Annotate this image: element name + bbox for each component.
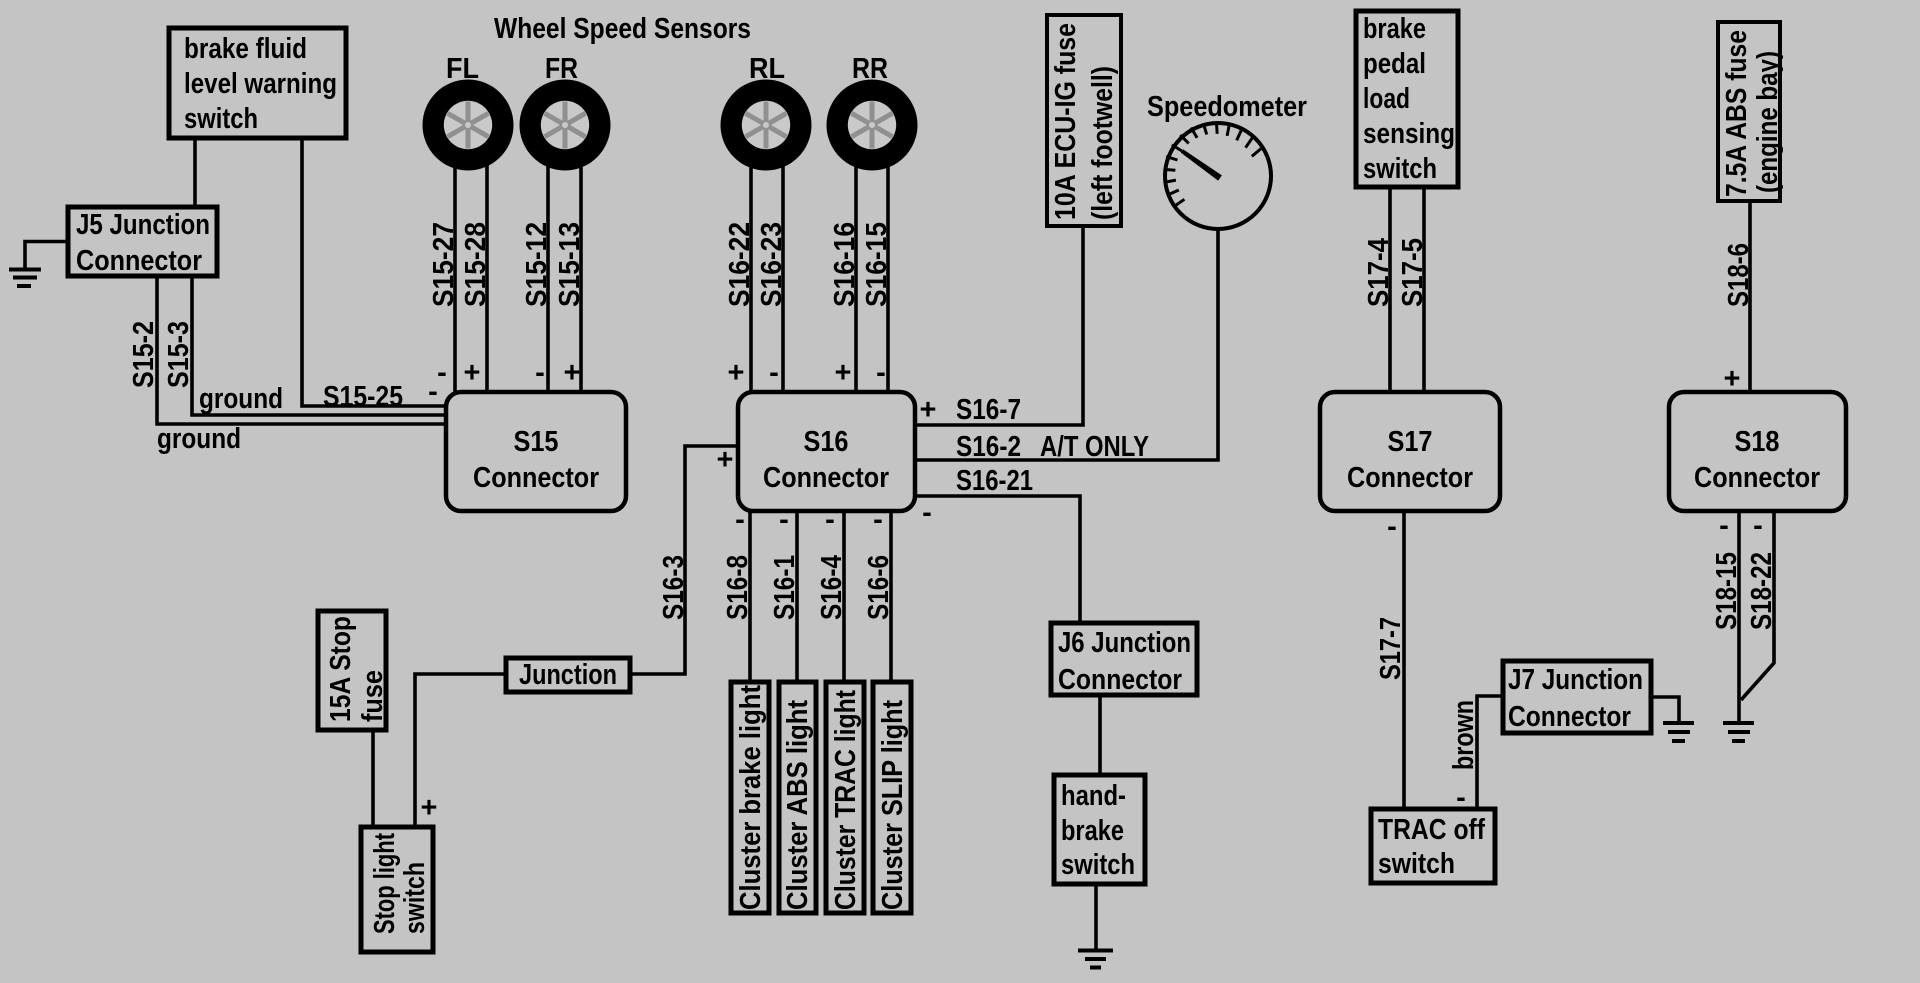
- svg-text:Cluster TRAC light: Cluster TRAC light: [830, 690, 862, 910]
- S18 Connector: [1669, 392, 1846, 511]
- svg-text:Speedometer: Speedometer: [1147, 91, 1307, 123]
- svg-text:sensing: sensing: [1363, 118, 1455, 150]
- svg-text:S15-12: S15-12: [521, 222, 553, 307]
- wire S16-1 to cluster ABS light: [795, 511, 799, 682]
- wire RR plus to S16-16: [854, 165, 858, 392]
- svg-text:15A Stop: 15A Stop: [325, 616, 357, 722]
- 10A ECU-IG fuse: [1047, 15, 1121, 226]
- wire S16-6 to cluster SLIP light: [889, 511, 893, 682]
- wire S16-4 to cluster TRAC light: [842, 511, 846, 682]
- wheel speed sensor FL: [423, 53, 514, 171]
- svg-text:load: load: [1363, 83, 1410, 115]
- svg-text:-: -: [437, 357, 447, 389]
- svg-text:J6 Junction: J6 Junction: [1058, 627, 1191, 659]
- svg-text:(left footwell): (left footwell): [1087, 66, 1119, 220]
- svg-text:S16-4: S16-4: [816, 555, 848, 620]
- svg-text:-: -: [1387, 511, 1397, 543]
- svg-text:S18-6: S18-6: [1723, 243, 1755, 307]
- svg-text:Stop light: Stop light: [369, 833, 401, 934]
- wire S18-22 joining S18-15: [1741, 511, 1774, 700]
- svg-text:S18-22: S18-22: [1746, 552, 1778, 630]
- ground symbol at J7: [1663, 723, 1694, 741]
- wire J5 to ground: [25, 242, 68, 269]
- wire ABS fuse to S18-6: [1748, 201, 1752, 392]
- TRAC off switch: [1371, 809, 1495, 883]
- svg-text:10A ECU-IG fuse: 10A ECU-IG fuse: [1050, 23, 1082, 220]
- wire J6 to hand-brake switch: [1098, 695, 1102, 775]
- svg-text:ground: ground: [157, 423, 241, 455]
- svg-text:S15-25: S15-25: [323, 381, 403, 413]
- svg-text:7.5A ABS fuse: 7.5A ABS fuse: [1721, 30, 1753, 197]
- J7 Junction Connector: [1503, 661, 1651, 733]
- svg-text:level warning: level warning: [184, 68, 337, 100]
- wire S17-7 to TRAC off switch: [1402, 511, 1406, 809]
- wire ECU-IG fuse to S16-7: [915, 226, 1083, 425]
- ground symbol at J5: [9, 270, 41, 287]
- svg-text:pedal: pedal: [1363, 48, 1426, 80]
- speedometer gauge: [1147, 91, 1307, 229]
- svg-text:S16-16: S16-16: [829, 222, 861, 307]
- svg-text:S16-7: S16-7: [956, 394, 1021, 426]
- svg-text:fuse: fuse: [357, 670, 389, 722]
- Cluster brake light: [731, 682, 769, 913]
- svg-text:switch: switch: [184, 103, 258, 135]
- wire S16-21 to J6: [915, 496, 1080, 623]
- svg-text:Junction: Junction: [519, 659, 617, 691]
- svg-text:+: +: [564, 357, 581, 389]
- svg-text:-: -: [876, 357, 886, 389]
- wire FL plus to S15-28: [485, 165, 489, 392]
- wire S18-15 to ground: [1737, 511, 1741, 722]
- wire RL minus to S16-23: [781, 165, 785, 392]
- svg-text:Connector: Connector: [76, 245, 202, 277]
- svg-text:TRAC off: TRAC off: [1378, 814, 1485, 846]
- ground symbol below hand-brake switch: [1078, 951, 1113, 968]
- svg-text:S18-15: S18-15: [1711, 552, 1743, 630]
- svg-text:S16-22: S16-22: [724, 222, 756, 307]
- svg-text:Wheel Speed Sensors: Wheel Speed Sensors: [494, 13, 751, 45]
- svg-text:S17-7: S17-7: [1375, 617, 1407, 680]
- J6 Junction Connector: [1051, 623, 1197, 696]
- svg-text:+: +: [835, 357, 852, 389]
- Junction box: [506, 658, 630, 692]
- svg-text:J5 Junction: J5 Junction: [76, 209, 210, 241]
- svg-text:Cluster brake light: Cluster brake light: [735, 685, 767, 910]
- 7.5A ABS fuse: [1718, 22, 1784, 201]
- svg-text:S15-13: S15-13: [554, 222, 586, 307]
- Stop light switch: [361, 827, 433, 952]
- wheel speed sensor RL: [721, 53, 812, 171]
- svg-text:Cluster ABS light: Cluster ABS light: [782, 700, 814, 910]
- svg-text:-: -: [873, 504, 883, 536]
- svg-text:brake fluid: brake fluid: [184, 33, 307, 65]
- svg-text:brake: brake: [1061, 815, 1124, 847]
- wire RL plus to S16-22: [749, 165, 753, 392]
- svg-text:+: +: [464, 357, 481, 389]
- svg-text:S16-1: S16-1: [769, 555, 801, 620]
- 15A Stop fuse: [318, 611, 389, 730]
- wheel speed sensor RR: [827, 53, 918, 171]
- svg-text:Connector: Connector: [473, 462, 599, 494]
- Cluster TRAC light: [826, 682, 864, 913]
- wheel speed sensor FR: [520, 53, 611, 171]
- wire stop light switch to Junction: [415, 674, 506, 827]
- svg-text:S17-4: S17-4: [1363, 238, 1395, 307]
- svg-text:S15-2: S15-2: [128, 321, 160, 388]
- svg-text:+: +: [717, 444, 734, 476]
- svg-text:brown: brown: [1448, 700, 1480, 770]
- svg-text:S16: S16: [804, 426, 849, 458]
- wire FR plus to S15-13: [579, 165, 583, 392]
- svg-text:-: -: [1753, 510, 1763, 542]
- svg-text:Connector: Connector: [1058, 664, 1182, 696]
- svg-text:J7 Junction: J7 Junction: [1508, 664, 1643, 696]
- wire S17-4: [1388, 187, 1392, 392]
- svg-text:+: +: [920, 394, 937, 426]
- svg-text:-: -: [922, 497, 932, 529]
- svg-text:S15: S15: [514, 426, 559, 458]
- svg-text:-: -: [428, 376, 438, 408]
- svg-text:-: -: [735, 504, 745, 536]
- wire S16-8 to cluster brake light: [748, 511, 752, 682]
- wire S15-2 from J5 to S15: [157, 276, 446, 424]
- svg-text:switch: switch: [1061, 849, 1135, 881]
- brake fluid level warning switch: [169, 28, 346, 138]
- wire TRAC off switch to J7: [1477, 696, 1503, 809]
- svg-text:brake: brake: [1363, 13, 1426, 45]
- wire RR minus to S16-15: [886, 165, 890, 392]
- svg-text:S16-8: S16-8: [722, 555, 754, 620]
- svg-text:-: -: [1456, 782, 1466, 814]
- svg-text:Cluster SLIP light: Cluster SLIP light: [877, 700, 909, 910]
- svg-text:-: -: [769, 357, 779, 389]
- svg-text:S16-15: S16-15: [861, 222, 893, 307]
- svg-text:-: -: [535, 357, 545, 389]
- S17 Connector: [1320, 392, 1500, 511]
- svg-text:Connector: Connector: [1347, 462, 1473, 494]
- svg-text:S15-28: S15-28: [460, 222, 492, 307]
- wire 15A Stop fuse to stop light switch: [371, 730, 375, 827]
- svg-text:-: -: [779, 504, 789, 536]
- svg-text:-: -: [1719, 510, 1729, 542]
- wire FR minus to S15-12: [546, 165, 550, 392]
- svg-text:S15-3: S15-3: [163, 321, 195, 388]
- wire J7 to ground: [1651, 697, 1679, 722]
- wire brake fluid switch to J5: [193, 138, 197, 207]
- svg-text:S17-5: S17-5: [1397, 238, 1429, 307]
- wire speedometer to S16-2: [915, 229, 1218, 460]
- svg-text:hand-: hand-: [1061, 780, 1126, 812]
- wire S16-3 to Junction: [630, 446, 738, 674]
- wire hand-brake switch to ground: [1094, 884, 1098, 949]
- svg-text:S16-21: S16-21: [956, 465, 1033, 497]
- svg-text:+: +: [421, 792, 438, 824]
- S15 Connector: [446, 392, 626, 511]
- svg-text:Connector: Connector: [763, 462, 889, 494]
- Cluster SLIP light: [873, 682, 911, 913]
- svg-text:S16-6: S16-6: [863, 555, 895, 620]
- svg-text:-: -: [825, 504, 835, 536]
- svg-text:A/T ONLY: A/T ONLY: [1040, 431, 1149, 463]
- svg-text:ground: ground: [199, 383, 283, 415]
- svg-text:Connector: Connector: [1694, 462, 1820, 494]
- svg-text:S16-2: S16-2: [956, 431, 1021, 463]
- wire S17-5: [1422, 187, 1426, 392]
- Cluster ABS light: [779, 682, 816, 913]
- brake pedal load sensing switch: [1356, 11, 1458, 187]
- J5 Junction Connector: [68, 207, 217, 277]
- wire FL minus to S15-27: [453, 165, 457, 392]
- svg-text:S15-27: S15-27: [428, 222, 460, 307]
- hand-brake switch: [1054, 775, 1145, 884]
- ground symbol below S18: [1723, 723, 1754, 741]
- svg-text:S16-23: S16-23: [756, 222, 788, 307]
- svg-text:+: +: [728, 357, 745, 389]
- svg-text:switch: switch: [1378, 848, 1455, 880]
- svg-text:S18: S18: [1735, 426, 1780, 458]
- svg-text:(engine bay): (engine bay): [1752, 51, 1784, 193]
- S16 Connector: [738, 392, 915, 511]
- wire S15-25 from brake fluid switch to S15: [302, 138, 446, 406]
- svg-text:S16-3: S16-3: [658, 555, 690, 620]
- svg-text:switch: switch: [399, 862, 431, 934]
- svg-text:switch: switch: [1363, 153, 1437, 185]
- wire S15-3 from J5 to S15: [192, 276, 446, 415]
- svg-text:S17: S17: [1388, 426, 1433, 458]
- svg-text:Connector: Connector: [1508, 701, 1631, 733]
